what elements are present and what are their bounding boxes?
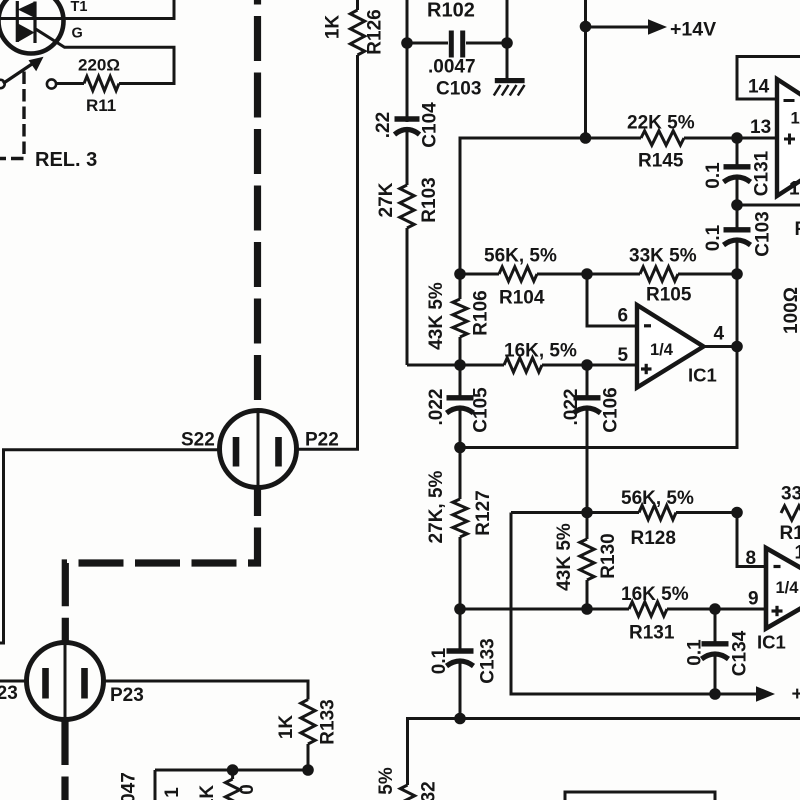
wire R127 bottom: [459, 537, 462, 609]
wire P22 right: [296, 55, 357, 449]
svg-text:IC1: IC1: [688, 365, 717, 386]
wire R145 left: [460, 138, 641, 274]
resistor R127: [453, 499, 467, 537]
svg-text:R102: R102: [427, 0, 475, 22]
svg-text:C105: C105: [471, 387, 492, 433]
svg-text:C106: C106: [601, 387, 622, 432]
arrow +14V lower: [756, 686, 775, 702]
node R145-14V: [580, 132, 592, 144]
shield dashed line lower: [65, 488, 257, 642]
svg-text:R145: R145: [638, 151, 684, 172]
switch arm: [3, 64, 32, 84]
svg-text:R: R: [795, 219, 800, 240]
wire row365 b: [542, 364, 636, 367]
wire C105 top: [459, 365, 462, 399]
svg-text:.0047: .0047: [119, 772, 140, 800]
wire R130 bottom: [586, 580, 589, 609]
resistor R106: [453, 299, 467, 337]
resistor R129: [781, 506, 800, 520]
svg-text:.022: .022: [426, 389, 447, 426]
wire row609 b: [667, 608, 766, 611]
capacitor C106: [574, 395, 601, 400]
resistor R145: [641, 131, 684, 145]
wire to C103: [407, 42, 448, 45]
resistor stub: [231, 770, 234, 779]
svg-text:0.1: 0.1: [685, 639, 706, 666]
svg-text:C104: C104: [420, 102, 441, 148]
wire pin6: [587, 274, 636, 326]
wire C134 bottom: [714, 652, 717, 694]
svg-text:0.1: 0.1: [703, 162, 724, 189]
op-amp IC1 pin13/14 section: [777, 79, 800, 196]
svg-text:43K 5%: 43K 5%: [554, 523, 575, 591]
svg-text:27K, 5%: 27K, 5%: [426, 470, 447, 543]
svg-text:+14V: +14V: [670, 19, 716, 41]
node 274-right: [731, 268, 743, 280]
wire C133 bottom: [459, 659, 462, 719]
node 365-left: [454, 359, 466, 371]
triac T1: [0, 0, 64, 54]
wire R127 top: [459, 448, 462, 500]
svg-text:8: 8: [746, 548, 757, 569]
svg-text:16K 5%: 16K 5%: [621, 584, 689, 605]
resistor 16K (pin5): [504, 358, 542, 372]
wire row274 a: [460, 273, 499, 276]
svg-text:R133: R133: [318, 699, 339, 744]
resistor R131: [629, 602, 667, 616]
capacitor C104: [395, 116, 420, 121]
capacitor C131: [724, 164, 751, 169]
svg-text:43K 5%: 43K 5%: [426, 282, 447, 350]
svg-text:R128: R128: [631, 528, 676, 549]
svg-text:56K, 5%: 56K, 5%: [621, 488, 694, 509]
svg-text:R126: R126: [365, 9, 386, 54]
op-amp IC1 section 1: [637, 305, 704, 388]
svg-text:5: 5: [618, 345, 629, 366]
svg-text:P23: P23: [110, 685, 144, 706]
wire +14V lower: [511, 513, 757, 695]
node junction ground leg: [501, 37, 513, 49]
svg-text:R129: R129: [780, 523, 800, 544]
svg-text:33K 5%: 33K 5%: [629, 246, 697, 267]
node 512-right: [731, 507, 743, 519]
wire row512 a: [511, 511, 639, 514]
resistor R126: [350, 10, 364, 55]
svg-text:1: 1: [789, 179, 800, 200]
svg-text:1/4: 1/4: [791, 110, 800, 128]
svg-text:1K: 1K: [323, 15, 344, 40]
wire P23 right: [104, 681, 309, 700]
wire R106 top: [459, 274, 462, 299]
IC box: [565, 792, 715, 800]
capacitor C133: [447, 648, 474, 653]
node R133 foot: [302, 764, 314, 776]
node pin13: [731, 132, 743, 144]
wire R133 bottom: [307, 744, 310, 770]
op-amp IC1 section 2: [766, 548, 800, 629]
wire R130 top: [586, 513, 589, 540]
wire C103 right: [466, 42, 507, 45]
wire stub right y205: [737, 204, 800, 207]
arrow +14V: [648, 19, 667, 35]
resistor R128: [639, 505, 676, 519]
wire +14V arrow line: [586, 26, 650, 29]
svg-text:G: G: [72, 26, 83, 42]
svg-text:C103: C103: [436, 79, 481, 100]
node +14V branch: [580, 21, 592, 33]
svg-text:P22: P22: [305, 430, 339, 451]
wire C134 top: [714, 609, 717, 645]
resistor R11: [84, 76, 119, 90]
svg-text:R104: R104: [499, 288, 545, 309]
wire +14V stem: [584, 0, 587, 138]
wire row512 b: [676, 511, 737, 514]
resistor R133: [301, 700, 315, 745]
shield dashed line upper: [254, 0, 261, 409]
wire C105 bottom: [459, 406, 462, 448]
wire C106 top: [586, 365, 589, 399]
svg-text:C131: C131: [752, 150, 773, 196]
svg-text:9: 9: [748, 589, 759, 610]
node C131-C103: [731, 199, 743, 211]
svg-text:27K: 27K: [376, 182, 397, 217]
wire row274 b: [537, 273, 640, 276]
switch terminal right: [47, 79, 56, 88]
wire row274 c: [678, 273, 737, 276]
wire pin8: [737, 513, 766, 567]
resistor R105: [640, 267, 678, 281]
wire S23 left: [0, 680, 27, 683]
svg-text:C133: C133: [478, 638, 499, 683]
svg-text:S22: S22: [181, 430, 215, 451]
ground: [495, 78, 525, 83]
svg-text:R11: R11: [86, 96, 116, 115]
wire ground leg: [506, 0, 509, 78]
svg-text:R127: R127: [473, 490, 494, 535]
node C134 bottom: [709, 688, 721, 700]
wire feedback pin14: [737, 57, 800, 100]
wire R126 top: [356, 0, 359, 10]
svg-text:13: 13: [750, 117, 771, 138]
svg-text:R105: R105: [646, 285, 692, 306]
node 609-mid: [581, 603, 593, 615]
svg-text:1/4: 1/4: [650, 341, 674, 359]
svg-text:16K, 5%: 16K, 5%: [504, 341, 577, 362]
wire row609 a: [460, 608, 629, 611]
wire T1 lead: [0, 0, 174, 19]
svg-text:14: 14: [748, 77, 770, 98]
svg-text:1/4: 1/4: [776, 579, 800, 597]
node shelf tap: [227, 764, 239, 776]
svg-text:220Ω: 220Ω: [78, 56, 120, 75]
node pin4: [731, 341, 743, 353]
wire R106 bottom: [459, 337, 462, 365]
svg-text:0.1: 0.1: [429, 647, 450, 674]
wire R102 left leg: [406, 0, 409, 122]
resistor R104: [499, 267, 537, 281]
svg-text:R103: R103: [419, 177, 440, 222]
connector S23/P23: [27, 643, 104, 720]
wire R11 left: [56, 82, 84, 85]
resistor R103: [400, 185, 414, 228]
svg-text:+: +: [792, 683, 800, 705]
svg-text:1: 1: [795, 543, 800, 564]
svg-text:R132: R132: [419, 781, 440, 800]
wire C106 bottom: [586, 406, 589, 513]
svg-text:1K: 1K: [197, 785, 218, 800]
dashed relay link: [0, 72, 24, 159]
svg-text:REL. 3: REL. 3: [35, 149, 97, 171]
wire bottom shelf: [155, 769, 308, 772]
svg-text:R106: R106: [471, 290, 492, 335]
node 512-mid: [581, 507, 593, 519]
wire pin13-C131: [736, 138, 739, 168]
svg-text:4: 4: [714, 324, 725, 345]
svg-text:.0047: .0047: [428, 57, 476, 78]
capacitor C103 .0047: [449, 31, 454, 58]
node 609-left: [454, 603, 466, 615]
svg-text:T1: T1: [71, 0, 88, 15]
svg-text:22K 5%: 22K 5%: [627, 113, 695, 134]
box left edge: [154, 770, 157, 800]
capacitor C134: [702, 641, 729, 646]
svg-text:1K: 1K: [276, 715, 297, 740]
wire C103-junction: [736, 238, 739, 274]
svg-text:R131: R131: [629, 623, 675, 644]
wire R103 down: [406, 228, 409, 365]
shield dashed line bottom: [61, 720, 68, 800]
capacitor C105: [447, 395, 474, 400]
svg-text:5%: 5%: [376, 767, 397, 795]
node 365-mid: [581, 359, 593, 371]
resistor R132: [400, 785, 414, 800]
capacitor C103 0.1: [724, 227, 751, 232]
svg-text:0: 0: [237, 784, 258, 795]
svg-text:C103: C103: [753, 211, 774, 256]
node 274-left: [454, 268, 466, 280]
wire S22 left: [0, 450, 220, 643]
svg-text:1: 1: [162, 787, 183, 798]
svg-text:.22: .22: [373, 112, 394, 138]
svg-text:R130: R130: [598, 533, 619, 578]
switch terminal left: [0, 80, 5, 88]
node C133 bottom: [454, 713, 466, 725]
svg-text:.022: .022: [561, 389, 582, 426]
svg-text:56K, 5%: 56K, 5%: [484, 246, 557, 267]
svg-text:C134: C134: [730, 630, 751, 676]
resistor R130: [580, 539, 594, 580]
svg-text:6: 6: [618, 306, 629, 327]
wire C133 top: [459, 609, 462, 652]
wire long bottom: [408, 719, 800, 786]
svg-text:33K 5%: 33K 5%: [781, 484, 800, 505]
node 609-right: [709, 603, 721, 615]
node junction x407: [401, 37, 413, 49]
wire C131-C103: [736, 175, 739, 231]
svg-text:0.1: 0.1: [703, 224, 724, 251]
connector S22/P22: [220, 411, 297, 488]
node fb-C105: [454, 442, 466, 454]
wire row365 a: [407, 364, 504, 367]
svg-text:100Ω: 100Ω: [781, 287, 800, 334]
node 274-mid: [581, 268, 593, 280]
wire output down: [460, 274, 737, 448]
wire gate: [35, 28, 175, 83]
wire C104-R103: [406, 127, 409, 185]
svg-text:S23: S23: [0, 683, 18, 704]
wire pin4 out: [704, 345, 738, 348]
wire R145 right: [684, 137, 777, 140]
svg-text:IC1: IC1: [757, 632, 786, 653]
